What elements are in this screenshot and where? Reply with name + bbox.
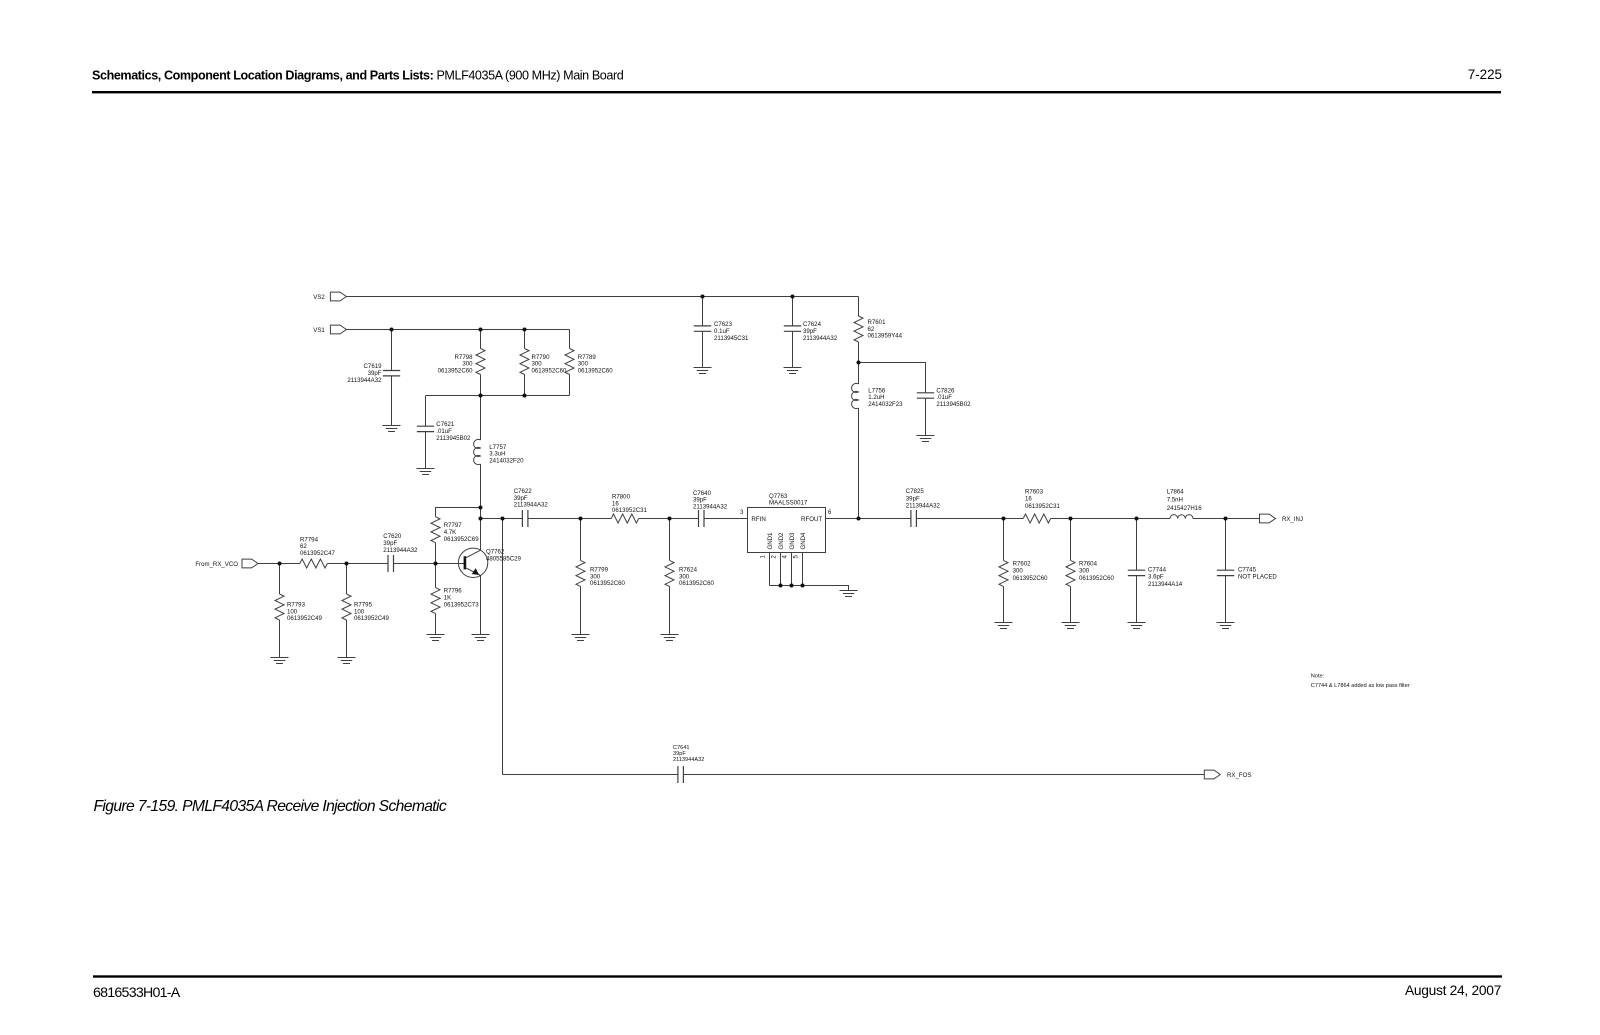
- node main-C7744: [1135, 517, 1139, 521]
- wire RFOUT to C7825: [826, 518, 911, 520]
- header rule: [92, 91, 1501, 93]
- resistor R7794: [300, 536, 336, 568]
- resistor R7604: [1066, 560, 1115, 586]
- svg-text:Schematics, Component Location: Schematics, Component Location Diagrams,…: [92, 68, 624, 82]
- ground C7744: [1128, 623, 1146, 629]
- wire R7797 links: [436, 508, 481, 564]
- capacitor C7623: [694, 321, 749, 342]
- op-amp U7763 buffer MAALSS0017: [740, 493, 832, 559]
- resistor R7601: [854, 316, 903, 342]
- node base-R7793: [278, 562, 282, 566]
- resistor R7795: [342, 594, 390, 622]
- wire C7744 stubs: [1136, 519, 1138, 623]
- svg-text:From_RX_VCO: From_RX_VCO: [195, 561, 238, 568]
- svg-text:RFIN: RFIN: [751, 516, 765, 523]
- port RX_INJ: [1260, 514, 1304, 523]
- svg-text:VS2: VS2: [313, 294, 325, 301]
- node collector-main: [479, 517, 483, 521]
- capacitor C7640: [693, 490, 728, 527]
- port RX_FOS: [1204, 770, 1251, 779]
- node main-RXFOS: [501, 517, 505, 521]
- transistor Q7762: [458, 548, 521, 577]
- wire C7619 stubs: [391, 330, 393, 426]
- node main-R7602: [1002, 517, 1006, 521]
- wire U7763 ground pins: [770, 553, 849, 591]
- wire main line C7622 left: [481, 518, 523, 520]
- wire R7794 to C7620: [327, 563, 388, 565]
- wire VS1 rail: [347, 329, 570, 331]
- resistor R7796: [431, 588, 479, 614]
- wire bottom line left: [503, 774, 678, 776]
- ground R7604: [1062, 623, 1080, 629]
- wire R7624 stubs: [669, 519, 671, 635]
- capacitor C7621: [417, 421, 471, 442]
- ground C7745: [1217, 623, 1235, 629]
- capacitor C7622: [514, 488, 549, 527]
- capacitor C7744: [1128, 567, 1183, 588]
- wire L7757 leads: [480, 396, 482, 508]
- node gnd-pin2: [779, 584, 783, 588]
- svg-text:C7744 & L7864 added as low pas: C7744 & L7864 added as low pass filter: [1311, 683, 1410, 689]
- ground U7763: [840, 591, 858, 597]
- node collector-R7797: [479, 506, 483, 510]
- svg-text:GND1: GND1: [767, 532, 774, 550]
- resistor R7800: [611, 494, 647, 523]
- port VS1: [313, 325, 346, 334]
- node main-R7799: [579, 517, 583, 521]
- resistor R7790: [520, 349, 567, 375]
- wire C7825 to R7603: [916, 518, 1023, 520]
- wire C7623 stubs: [702, 297, 704, 368]
- wire R7603 to L7864: [1051, 518, 1170, 520]
- svg-text:Figure 7-159. PMLF4035A Receiv: Figure 7-159. PMLF4035A Receive Injectio…: [94, 798, 447, 815]
- wire R7604 stubs: [1070, 519, 1072, 623]
- wire RX_FOS drop: [502, 519, 504, 775]
- ground C7619: [383, 426, 401, 432]
- wire base input: [258, 563, 300, 565]
- capacitor C7745: [1217, 567, 1278, 581]
- node VS2-C7623: [701, 295, 705, 299]
- capacitor C7620: [383, 533, 418, 572]
- resistor R7602: [999, 560, 1048, 586]
- wire C7621 stubs: [425, 396, 427, 469]
- ground Q7762 emitter: [472, 635, 490, 641]
- capacitor C7641: [673, 745, 704, 783]
- svg-text:RX_INJ: RX_INJ: [1282, 516, 1303, 523]
- resistor R7793: [275, 594, 323, 622]
- svg-text:RX_FOS: RX_FOS: [1227, 772, 1251, 779]
- wire emitter: [480, 576, 482, 635]
- node rail-R7798: [479, 394, 483, 398]
- resistor R7789: [565, 349, 613, 375]
- wire R7601 leads: [858, 297, 860, 363]
- inductor L7757: [474, 439, 525, 464]
- wire collector line: [480, 508, 482, 551]
- svg-text:August 24, 2007: August 24, 2007: [1405, 983, 1501, 998]
- wire R7799 stubs: [580, 519, 582, 635]
- ground R7602: [995, 623, 1013, 629]
- wire R7789 leads: [569, 330, 571, 396]
- capacitor C7826: [917, 387, 971, 408]
- capacitor C7825: [906, 488, 941, 527]
- wire C7826 branch: [859, 363, 926, 436]
- resistor R7603: [1023, 489, 1060, 524]
- node R7601-L7756: [857, 361, 861, 365]
- node gnd-pin5: [801, 584, 805, 588]
- node VS1-R7790: [523, 328, 527, 332]
- resistor R7624: [665, 560, 715, 587]
- node VS1-C7619: [390, 328, 394, 332]
- node main-R7604: [1069, 517, 1073, 521]
- node main-R7624: [668, 517, 672, 521]
- node main-C7745: [1224, 517, 1228, 521]
- svg-text:GND3: GND3: [789, 532, 796, 550]
- port From_RX_VCO: [195, 559, 258, 568]
- node VS1-R7798: [479, 328, 483, 332]
- svg-text:Note:: Note:: [1311, 674, 1325, 680]
- svg-text:6816533H01-A: 6816533H01-A: [93, 985, 181, 1001]
- node RFOUT-L7756: [857, 517, 861, 521]
- capacitor C7619: [347, 363, 400, 384]
- ground C7621: [417, 469, 435, 475]
- node base-R7795: [345, 562, 349, 566]
- wire R7602 stubs: [1003, 519, 1005, 623]
- ground C7624: [784, 368, 802, 374]
- wire R7798 leads: [480, 330, 482, 396]
- wire R7793 stubs: [279, 564, 281, 658]
- wire bottom line right: [683, 774, 1204, 776]
- inductor L7756: [852, 383, 904, 408]
- wire R7796 stubs: [435, 564, 437, 635]
- wire R7800 to C7640: [639, 518, 699, 520]
- ground R7624: [661, 635, 679, 641]
- node rail-R7790: [523, 394, 527, 398]
- node VS2-C7624: [791, 295, 795, 299]
- ground R7796: [427, 635, 445, 641]
- wire divider bottom rail: [426, 395, 570, 397]
- wire L7756 link: [858, 363, 860, 519]
- wire R7790 leads: [524, 330, 526, 396]
- ground C7826: [917, 436, 935, 442]
- inductor L7864: [1167, 488, 1203, 518]
- wire C7640 to RFIN: [704, 518, 748, 520]
- svg-text:GND2: GND2: [778, 532, 785, 550]
- wire VS2 rail: [347, 296, 859, 298]
- resistor R7799: [576, 560, 626, 587]
- ground R7795: [338, 658, 356, 664]
- wire C7624 stubs: [792, 297, 794, 368]
- svg-text:7-225: 7-225: [1468, 67, 1502, 82]
- ground R7793: [271, 658, 289, 664]
- port VS2: [313, 292, 346, 301]
- footer rule: [93, 975, 1502, 977]
- resistor R7798: [438, 349, 485, 375]
- node base-R7796: [434, 562, 438, 566]
- svg-text:RFOUT: RFOUT: [801, 516, 823, 523]
- ground C7623: [694, 368, 712, 374]
- wire R7795 stubs: [346, 564, 348, 658]
- wire C7622 to R7800: [528, 518, 611, 520]
- svg-text:VS1: VS1: [313, 327, 325, 334]
- capacitor C7624: [784, 321, 838, 342]
- resistor R7797: [431, 517, 479, 543]
- wire C7620 to base: [394, 563, 465, 565]
- node gnd-pin4: [790, 584, 794, 588]
- svg-text:GND4: GND4: [800, 532, 807, 550]
- ground R7799: [572, 635, 590, 641]
- wire C7745 stubs: [1225, 519, 1227, 623]
- wire L7864 to RX_INJ: [1193, 518, 1260, 520]
